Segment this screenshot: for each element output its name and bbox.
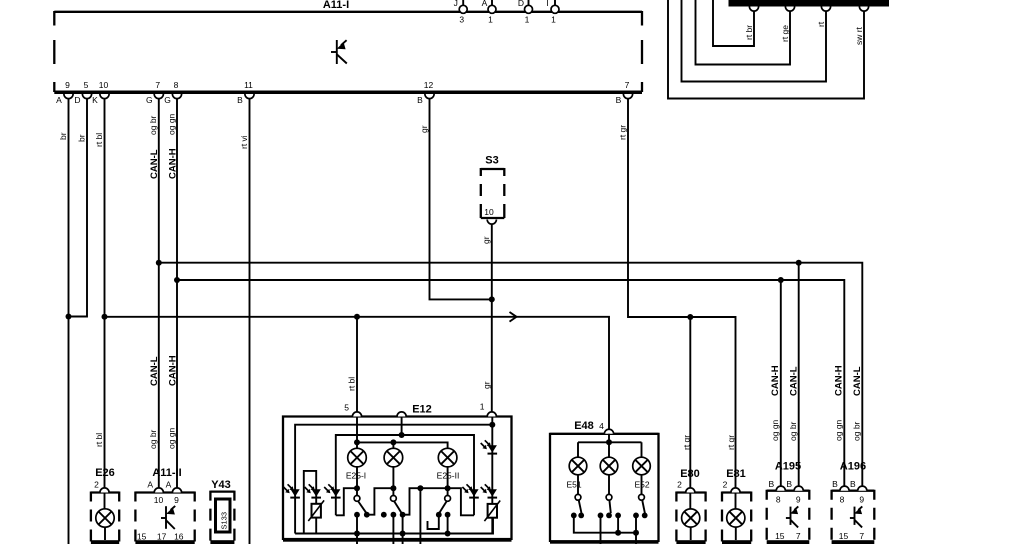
svg-text:11: 11 — [244, 80, 253, 90]
svg-text:rt gr: rt gr — [618, 125, 628, 140]
junction lamp feed 2 — [390, 439, 396, 445]
svg-text:og br: og br — [148, 429, 158, 449]
svg-text:1: 1 — [488, 15, 493, 25]
E12 stair switch1-switch2 — [367, 488, 394, 515]
label rt gr — [618, 125, 628, 140]
junction lamp feed 1 — [354, 439, 360, 445]
wire br from pin 9 — [68, 99, 70, 544]
wire gr from pin 12 — [430, 99, 492, 300]
label CAN-H — [834, 365, 845, 396]
svg-text:CAN-L: CAN-L — [789, 366, 800, 396]
control unit A11-I box — [54, 0, 642, 94]
E80 pin 2 bump — [686, 488, 695, 493]
wire gr from S3 to E12 pin 1 — [491, 224, 493, 412]
lamp E52 — [633, 457, 651, 489]
A11-I bottom pin 11/B — [237, 80, 254, 105]
svg-text:10: 10 — [99, 80, 109, 90]
svg-text:8: 8 — [776, 495, 781, 505]
E12 lamp feed rail from pin 5 — [357, 417, 448, 449]
svg-text:17: 17 — [157, 532, 167, 542]
switch S3 box — [481, 155, 505, 219]
A11-II pin A bump 1 — [154, 488, 163, 493]
svg-text:7: 7 — [859, 531, 864, 541]
LED E12-b — [305, 484, 321, 497]
svg-text:rt bl: rt bl — [347, 377, 357, 391]
wire rt gr from pin 7 (right) — [628, 99, 736, 489]
svg-text:br: br — [77, 134, 87, 142]
label rt bl — [94, 133, 104, 147]
E26 pin 2 bump — [100, 488, 109, 493]
A11-I bottom pin 12/B — [417, 80, 434, 105]
LED E12-e — [481, 440, 497, 453]
wire og gn CAN-H from pin 8 to A11-II — [176, 99, 178, 489]
svg-text:B: B — [417, 95, 423, 105]
svg-text:5: 5 — [344, 403, 349, 413]
LED E12-a — [284, 484, 300, 497]
svg-text:2: 2 — [723, 480, 728, 490]
E12 switch 3 lower hook — [428, 515, 439, 529]
label rt ge — [780, 25, 790, 42]
label CAN-H — [770, 365, 781, 396]
label rt gr (E80) — [682, 435, 692, 450]
junction bottom rail 1 — [354, 531, 360, 537]
svg-text:sw rt: sw rt — [854, 26, 864, 45]
svg-text:1: 1 — [525, 15, 530, 25]
E12 pin 5 bump — [344, 403, 361, 417]
wire rt (top-right pin 3) — [682, 0, 827, 82]
svg-text:D: D — [74, 95, 80, 105]
svg-text:E25-I: E25-I — [346, 471, 366, 481]
E12 switch 2 — [381, 467, 406, 544]
lamp E25-II — [437, 448, 460, 480]
svg-text:og gn: og gn — [770, 419, 780, 441]
E48 pin 4 bump — [604, 429, 613, 434]
svg-text:B: B — [768, 479, 774, 489]
label og br lower — [148, 429, 158, 449]
svg-text:og gn: og gn — [834, 419, 844, 441]
E48 switch 2 — [598, 475, 621, 519]
A11-I bottom pin 7/B — [616, 80, 633, 105]
svg-text:rt br: rt br — [744, 25, 754, 40]
control unit A196 — [832, 461, 875, 544]
A11-I top pin D/1 — [518, 0, 533, 24]
E12 switch 1 — [354, 467, 370, 544]
label og gn lower — [167, 427, 177, 449]
junction bottom rail 3 — [445, 531, 451, 537]
svg-text:CAN-H: CAN-H — [168, 148, 179, 179]
wire rt br (top-right pin 1) — [713, 0, 754, 46]
svg-text:9: 9 — [796, 495, 801, 505]
svg-text:9: 9 — [859, 495, 864, 505]
E12 internal gr rail from pin1 — [491, 417, 493, 534]
svg-text:4: 4 — [599, 421, 604, 431]
wire og br CAN-L from pin 7 to A11-II — [158, 99, 160, 489]
svg-text:E48: E48 — [574, 420, 594, 432]
svg-text:10: 10 — [154, 495, 164, 505]
svg-text:1: 1 — [480, 402, 485, 412]
svg-text:S133: S133 — [220, 512, 229, 530]
svg-text:og br: og br — [852, 421, 862, 441]
svg-text:E26: E26 — [95, 467, 115, 479]
svg-text:8: 8 — [174, 80, 179, 90]
svg-text:br: br — [58, 132, 68, 140]
direction arrow on bus — [510, 312, 517, 322]
label rt — [816, 21, 826, 27]
wire rt bl from pin 10 to E26 — [104, 99, 106, 489]
svg-text:2: 2 — [94, 480, 99, 490]
label br — [77, 134, 87, 142]
svg-text:1: 1 — [551, 15, 556, 25]
svg-text:E51: E51 — [566, 479, 581, 489]
svg-text:rt vi: rt vi — [239, 135, 249, 149]
lamp E81 — [727, 493, 745, 541]
label CAN-L lower — [149, 356, 160, 386]
A11-I bottom pin 9/A — [56, 80, 73, 105]
label CAN-L — [789, 366, 800, 396]
junction og gn / CAN-H bus — [174, 277, 180, 283]
junction br wires — [66, 314, 72, 320]
bus wire to E12/E48 — [105, 317, 610, 430]
E48 internal feed rail — [578, 434, 642, 458]
top-right unit pin at x=826 — [821, 7, 830, 12]
wire og gn to A195 pin 8 — [780, 280, 782, 487]
svg-text:E81: E81 — [726, 468, 746, 480]
svg-text:7: 7 — [625, 80, 630, 90]
svg-text:16: 16 — [174, 532, 184, 542]
rheostat E12 left — [308, 500, 324, 521]
E12 switch 3 — [436, 467, 451, 534]
lamp E26 — [96, 493, 114, 541]
svg-text:E12: E12 — [412, 404, 432, 416]
svg-text:A196: A196 — [840, 461, 866, 473]
label og gn — [167, 113, 177, 135]
lamp unit E81 box — [722, 468, 751, 544]
svg-text:A: A — [56, 95, 62, 105]
wire rt ge (top-right pin 2) — [696, 0, 791, 65]
svg-text:CAN-L: CAN-L — [149, 149, 160, 179]
svg-text:CAN-L: CAN-L — [149, 356, 160, 386]
svg-text:S3: S3 — [485, 155, 498, 167]
svg-text:5: 5 — [84, 80, 89, 90]
label rt bl lower (E26) — [94, 433, 104, 447]
wire rt bl drop to E12 pin 5 — [356, 317, 358, 412]
lamp E48 middle — [600, 457, 618, 475]
svg-text:12: 12 — [424, 80, 434, 90]
label CAN-H lower — [168, 355, 179, 386]
svg-text:10: 10 — [484, 207, 494, 217]
A11-I bottom pin 10/K — [92, 80, 109, 105]
label og gn — [834, 419, 844, 441]
junction CAN-L / A195 pin 9 — [796, 260, 802, 266]
E12 H2 right step to switch3 shelf — [403, 488, 474, 515]
top-right control unit (partial, bottom bar) — [729, 0, 890, 7]
svg-text:G: G — [146, 95, 153, 105]
top-right unit pin at x=864 — [859, 7, 868, 12]
interior lamp unit E48 box — [550, 420, 659, 544]
svg-text:og gn: og gn — [167, 113, 177, 135]
lamp E51 — [566, 457, 586, 489]
svg-text:rt ge: rt ge — [780, 25, 790, 42]
control unit A11-II box — [135, 467, 194, 544]
control unit A195 — [767, 461, 810, 544]
E12 pin 1 bump — [480, 402, 497, 417]
wire rt vi from pin 11 — [249, 99, 251, 544]
E12 H2 left step to switch1 — [336, 488, 357, 515]
rheostat E12 right — [484, 501, 500, 522]
wire og br to A195 pin 9 — [798, 263, 800, 487]
svg-text:A: A — [482, 0, 488, 8]
lamp E25 (middle) — [384, 448, 403, 467]
light switch module E12 box — [283, 404, 512, 542]
svg-text:CAN-H: CAN-H — [834, 365, 845, 396]
wire rt gr drop to E80 — [689, 317, 691, 488]
A11-I top pin J/3 — [454, 0, 468, 24]
lamp E80 — [682, 493, 700, 541]
junction bottom rail 2 — [400, 531, 406, 537]
svg-text:og br: og br — [788, 421, 798, 441]
svg-text:2: 2 — [677, 480, 682, 490]
label gr — [419, 125, 429, 133]
LED E12-d — [462, 484, 478, 497]
svg-text:A195: A195 — [775, 461, 801, 473]
svg-text:og gn: og gn — [167, 427, 177, 449]
svg-text:D: D — [518, 0, 524, 8]
A11-I bottom pin 5/D — [74, 80, 91, 105]
label CAN-H — [168, 148, 179, 179]
svg-text:Y43: Y43 — [211, 479, 231, 491]
svg-text:E80: E80 — [680, 468, 700, 480]
svg-text:9: 9 — [65, 80, 70, 90]
svg-text:rt gr: rt gr — [682, 435, 692, 450]
label gr (S3) — [481, 236, 491, 244]
LED E12-f — [481, 484, 497, 497]
A11-I top pin A/1 — [482, 0, 496, 24]
E12 unused middle pin bump — [397, 412, 406, 417]
svg-text:I: I — [546, 0, 548, 8]
label rt br — [744, 25, 754, 40]
svg-text:8: 8 — [840, 495, 845, 505]
transistor symbol inside A11-II — [161, 506, 175, 529]
svg-text:CAN-H: CAN-H — [770, 365, 781, 396]
lamp unit E80 box — [676, 468, 705, 544]
svg-text:7: 7 — [796, 531, 801, 541]
E12 middle pin drop to rail H2 — [399, 417, 405, 439]
svg-text:7: 7 — [155, 80, 160, 90]
top-right unit pin at x=754 — [749, 7, 758, 12]
A11-I bottom pin 8/G — [164, 80, 181, 105]
svg-text:A: A — [147, 480, 153, 490]
label sw rt — [854, 26, 864, 45]
E12 illumination loop — [304, 471, 316, 534]
E12 drop wire below box (shelf) — [419, 488, 421, 544]
CAN-L bus (og br) to A195 pin9 / A196 pin9 — [159, 263, 863, 487]
svg-text:J: J — [454, 0, 458, 8]
actuator Y43 box — [210, 479, 234, 544]
label rt vi — [239, 135, 249, 149]
label rt bl (E12 pin5) — [347, 377, 357, 391]
svg-text:A11-II: A11-II — [152, 467, 181, 479]
svg-text:K: K — [92, 95, 98, 105]
svg-text:og br: og br — [148, 115, 158, 135]
label og gn — [770, 419, 780, 441]
junction gr wires — [489, 296, 495, 302]
E48 switch 1 — [571, 475, 584, 519]
S3 pin 10 bump — [487, 220, 496, 225]
label og br — [148, 115, 158, 135]
svg-text:15: 15 — [137, 532, 147, 542]
svg-text:B: B — [237, 95, 243, 105]
svg-text:gr: gr — [419, 125, 429, 133]
junction shelf drop — [417, 485, 423, 491]
svg-text:B: B — [850, 479, 856, 489]
E12 rail H2 — [336, 435, 474, 515]
A11-II pin A bump 2 — [172, 488, 181, 493]
svg-text:CAN-H: CAN-H — [168, 355, 179, 386]
transistor symbol inside A11-I — [331, 40, 347, 64]
top-right unit pin at x=790 — [785, 7, 794, 12]
svg-text:gr: gr — [481, 236, 491, 244]
svg-text:B: B — [616, 95, 622, 105]
lamp E25-I — [346, 448, 366, 480]
svg-text:G: G — [164, 95, 171, 105]
E81 pin 2 bump — [731, 488, 740, 493]
svg-text:9: 9 — [174, 495, 179, 505]
CAN-H bus (og gn) to A195 pin8 / A196 pin8 — [177, 280, 844, 487]
svg-text:rt: rt — [816, 21, 826, 27]
label br — [58, 132, 68, 140]
svg-text:gr: gr — [482, 381, 492, 389]
svg-text:CAN-L: CAN-L — [852, 366, 863, 396]
label og br — [852, 421, 862, 441]
label og br — [788, 421, 798, 441]
label gr (E12 pin1) — [482, 381, 492, 389]
svg-text:15: 15 — [775, 531, 785, 541]
A11-I bottom pin 7/G — [146, 80, 163, 105]
lamp unit E26 box — [91, 467, 119, 544]
junction pin1/H1 — [489, 422, 495, 428]
LED E12-c — [324, 484, 340, 497]
E12 internal feed rail H1 — [295, 425, 492, 534]
svg-text:A: A — [166, 480, 172, 490]
label rt gr (E81) — [726, 435, 736, 450]
wire br from pin 5 joining pin 9 wire — [69, 99, 88, 317]
wire sw rt (top-right pin 4) — [668, 0, 864, 99]
junction rt bl / bus — [102, 314, 108, 320]
svg-text:A11-I: A11-I — [323, 0, 349, 11]
junction og br / CAN-L bus — [156, 260, 162, 266]
svg-text:15: 15 — [839, 531, 849, 541]
svg-text:B: B — [832, 479, 838, 489]
label CAN-L — [852, 366, 863, 396]
svg-text:rt bl: rt bl — [94, 133, 104, 147]
junction rt gr / E80 drop — [687, 314, 693, 320]
svg-text:3: 3 — [459, 15, 464, 25]
E12 bottom internal rail — [295, 518, 493, 534]
junction CAN-H / A195 pin 8 — [778, 277, 784, 283]
E48 switch 3 — [633, 475, 648, 519]
A11-I top pin I/1 — [546, 0, 559, 24]
E48 bottom links — [574, 515, 639, 544]
junction bus / E12 pin 5 drop — [354, 314, 360, 320]
svg-text:B: B — [786, 479, 792, 489]
switch S133 inside Y43 — [216, 499, 231, 532]
label CAN-L — [149, 149, 160, 179]
svg-text:rt bl: rt bl — [94, 433, 104, 447]
svg-text:rt gr: rt gr — [726, 435, 736, 450]
